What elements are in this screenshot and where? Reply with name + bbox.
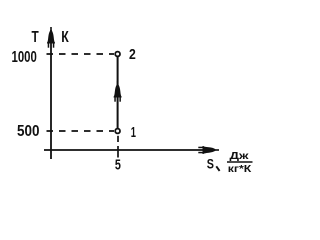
svg-text:кг*К: кг*К: [228, 163, 252, 175]
svg-text:1000: 1000: [12, 49, 37, 66]
fraction bar: [227, 161, 253, 163]
axis T arrowhead (up): [47, 27, 55, 48]
dashed line T=1000: [47, 53, 115, 55]
dashed line S=5 (upper dash): [117, 136, 119, 142]
process line 1-2: [117, 56, 119, 129]
axis T (vertical line): [50, 30, 52, 159]
svg-text:Дж: Дж: [230, 150, 250, 162]
svg-text:500: 500: [17, 123, 40, 140]
comma tick after S: [216, 166, 219, 171]
svg-text:5: 5: [115, 156, 121, 173]
svg-text:2: 2: [129, 46, 136, 63]
node 1 (state point, open circle): [115, 129, 120, 134]
svg-text:T: T: [32, 29, 39, 46]
svg-text:К: К: [61, 29, 69, 46]
axis S (horizontal line): [44, 149, 213, 151]
dashed line T=500: [47, 130, 115, 132]
process direction arrow (up): [114, 81, 122, 102]
node 2 (state point, open circle): [115, 52, 120, 57]
axis S arrowhead (right): [198, 146, 219, 154]
dashed line S=5 (tick dash through axis): [117, 146, 119, 158]
svg-text:S: S: [207, 157, 214, 172]
svg-text:1: 1: [131, 124, 136, 141]
